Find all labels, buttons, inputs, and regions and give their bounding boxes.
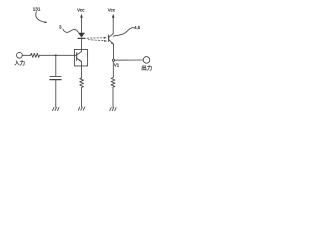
wire xyxy=(112,87,114,107)
svg-text:入力: 入力 xyxy=(14,59,25,67)
power Vcc left xyxy=(77,8,85,34)
wire xyxy=(22,54,30,56)
wire xyxy=(55,80,57,108)
resistor R1 xyxy=(31,53,40,57)
svg-text:131: 131 xyxy=(33,6,41,11)
light arrow lower xyxy=(88,40,107,42)
label 4,5 xyxy=(113,25,140,36)
ground xyxy=(78,107,85,110)
LED D1 xyxy=(78,33,85,39)
wire xyxy=(112,61,114,77)
resistor R3 xyxy=(111,78,115,88)
transistor Q1 package box xyxy=(74,49,87,66)
svg-text:4,5: 4,5 xyxy=(134,25,140,30)
capacitor C1 xyxy=(50,76,61,79)
svg-text:Vcc: Vcc xyxy=(108,8,116,13)
resistor R2 xyxy=(80,78,84,88)
label 131 xyxy=(33,6,47,23)
terminal output (出力) xyxy=(141,57,152,72)
svg-text:出力: 出力 xyxy=(141,64,152,72)
wire xyxy=(113,44,115,59)
ground xyxy=(53,107,60,110)
svg-text:Vcc: Vcc xyxy=(77,8,85,13)
wire xyxy=(55,55,57,76)
transistor Q1 xyxy=(77,52,82,62)
wire xyxy=(81,87,83,107)
power Vcc right xyxy=(108,8,116,34)
light arrow upper xyxy=(87,37,107,39)
wire xyxy=(40,54,77,56)
ground xyxy=(110,108,117,111)
wire xyxy=(81,62,83,78)
wire xyxy=(115,59,144,61)
terminal input (入力) xyxy=(14,52,25,67)
label 3 xyxy=(59,25,78,33)
svg-text:V1: V1 xyxy=(114,63,120,68)
wire xyxy=(81,38,83,51)
node V1 xyxy=(112,59,119,67)
phototransistor Q2 xyxy=(109,34,114,45)
node junction xyxy=(55,54,57,56)
